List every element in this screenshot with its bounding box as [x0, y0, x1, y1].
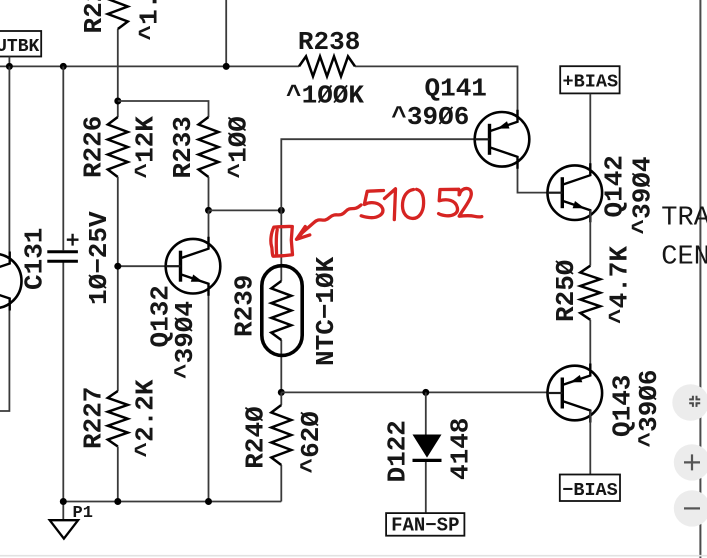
svg-text:^39Ø4: ^39Ø4 [170, 301, 200, 379]
resistor R233 [199, 117, 219, 177]
wire Q142 emitter to R250 [589, 210, 591, 266]
UI fit-view button [672, 384, 707, 421]
svg-text:R227: R227 [79, 387, 109, 449]
value label ^2.2K [131, 379, 161, 457]
transistor Q132 [166, 237, 221, 296]
wire Q130 emitter down and out left [0, 296, 9, 411]
label C131 [19, 228, 49, 290]
wire +BIAS to Q142 collector [589, 94, 591, 172]
svg-text:−BIAS: −BIAS [562, 480, 618, 501]
UI zoom-out button [674, 490, 707, 526]
label R238 [298, 27, 360, 57]
label R225 [79, 0, 109, 34]
svg-text:TRA: TRA [661, 204, 707, 234]
value label 4148 [446, 418, 476, 480]
svg-text:P1: P1 [73, 504, 93, 523]
resistor R226 [108, 117, 128, 177]
svg-text:1Ø−25V: 1Ø−25V [84, 211, 114, 305]
svg-text:OUTBK: OUTBK [0, 37, 39, 57]
node junction dot lower mid net [278, 389, 285, 396]
svg-text:^1ØØ: ^1ØØ [224, 116, 254, 178]
resistor R225 (cut at top edge) [108, 0, 128, 29]
diode D122 [413, 435, 442, 461]
power label box +BIAS [560, 66, 619, 93]
transistor Q130 [0, 252, 22, 311]
thermistor R239 capsule outline [262, 266, 302, 356]
wire Q143 collector to -BIAS [589, 411, 591, 475]
wire C131 branch vertical upper [62, 66, 64, 250]
wire R250 bottom to Q143 emitter [589, 320, 591, 372]
node junction dot ground rail x63 [60, 498, 67, 505]
red annotation box around node (marker) [271, 226, 293, 256]
resistor R238 [299, 56, 355, 76]
capacitor C131 [47, 234, 78, 261]
svg-text:R239: R239 [230, 275, 260, 337]
value label ^100K [286, 81, 364, 111]
resistor R240 [271, 405, 291, 465]
wire right edge vertical (off-page bus) [699, 0, 701, 558]
svg-text:R233: R233 [168, 116, 198, 178]
wire left vertical from rail down to Q130 [8, 66, 10, 258]
red annotation arrow [297, 205, 362, 239]
wire D122 cathode to FAN-SP [425, 462, 427, 513]
node junction dot ground rail x208 [205, 498, 212, 505]
UI bottom hairline [0, 555, 707, 557]
svg-text:C131: C131 [19, 228, 49, 290]
resistor R250 [580, 266, 600, 320]
wire Q141 collector down to Q142 base [518, 160, 549, 193]
wire R225 bottom to node [117, 29, 119, 117]
text CENTER (cut) [661, 242, 707, 272]
wire Q132 emitter down to ground rail [208, 290, 210, 502]
label Q143 [608, 375, 638, 437]
value label ^100 [224, 116, 254, 178]
svg-text:FAN−SP: FAN−SP [391, 515, 459, 537]
UI zoom-in button [674, 444, 707, 480]
svg-text:R25Ø: R25Ø [551, 260, 581, 322]
power label box -BIAS [560, 475, 620, 502]
svg-text:D122: D122 [383, 420, 413, 482]
value label ^3904 (Q142) [627, 156, 657, 234]
label Q141 [425, 74, 487, 104]
wire link between collector node and NTC node [209, 209, 282, 211]
svg-text:^39Ø4: ^39Ø4 [627, 156, 657, 234]
svg-text:^1.5K: ^1.5K [134, 0, 164, 41]
value label 10-25V [84, 211, 114, 305]
label Q132 [145, 285, 175, 347]
transistor Q142 [548, 163, 603, 222]
label D122 [383, 420, 413, 482]
svg-text:^39Ø6: ^39Ø6 [634, 369, 664, 447]
node junction dot on rail at x226 [223, 63, 230, 70]
svg-text:^62Ø: ^62Ø [296, 411, 326, 473]
wire NTC node down through thermistor to lower node [280, 210, 282, 392]
node junction dot at x9 on rail [6, 63, 13, 70]
node junction dot NTC top net [278, 207, 285, 214]
svg-text:^2.2K: ^2.2K [131, 379, 161, 457]
svg-text:R226: R226 [79, 116, 109, 178]
node junction dot D122 anode net [422, 389, 429, 396]
node junction dot R226/R233 top [114, 98, 121, 105]
transistor Q141 [475, 110, 530, 169]
node junction dot ground rail x117 [114, 498, 121, 505]
wire R233 bottom to collector node [208, 177, 210, 210]
wire vertical drop from top edge to rail [225, 0, 227, 66]
value label ^3904 [170, 301, 200, 379]
label R239 [230, 275, 260, 337]
value label ^3906 [391, 102, 469, 132]
wire NTC node up and right to Q141 base [281, 139, 476, 210]
wire Q132 collector vertical [208, 210, 210, 246]
value label NTC-10K [311, 256, 341, 366]
wire D122 anode [425, 392, 427, 434]
wire stub from OUTBK box to rail [8, 57, 10, 67]
svg-text:R225: R225 [79, 0, 109, 34]
value label ^12K [131, 116, 161, 179]
resistor R227 [108, 391, 128, 447]
label R226 [79, 116, 109, 178]
wire main top horizontal rail [0, 66, 518, 139]
wire R227 bottom to ground rail [117, 447, 119, 502]
svg-text:R24Ø: R24Ø [241, 406, 271, 468]
value label ^1.5K (cut at top edge) [134, 0, 164, 41]
label R250 [551, 260, 581, 322]
svg-text:^1ØØK: ^1ØØK [286, 81, 364, 111]
svg-text:R238: R238 [298, 27, 360, 57]
red annotation text 510 [361, 189, 423, 220]
value label ^4.7K [605, 246, 635, 324]
wire lower mid horizontal to Q143 base [281, 391, 548, 393]
svg-text:4148: 4148 [446, 418, 476, 480]
svg-text:Q142: Q142 [600, 155, 630, 217]
wire C131 branch vertical lower down to ground rail [62, 263, 64, 521]
wire R240 bottom to ground rail corner [280, 465, 282, 502]
net label box FAN-SP [386, 513, 464, 536]
label R227 [79, 387, 109, 449]
svg-text:CEN: CEN [661, 242, 707, 272]
wire branch to R233 top [118, 101, 209, 117]
label R233 [168, 116, 198, 178]
red annotation text 52 [439, 188, 482, 216]
label R240 [241, 406, 271, 468]
wire R226 bottom down through Q132 base node to R227 [117, 177, 119, 391]
thermistor R239 zigzag [271, 281, 291, 340]
node junction dot Q132 base [114, 263, 121, 270]
node junction dot Q132 collector [205, 207, 212, 214]
svg-text:^4.7K: ^4.7K [605, 246, 635, 324]
wire ground rail horizontal [63, 501, 281, 503]
svg-text:Q141: Q141 [425, 74, 487, 104]
value label ^3906 (Q143) [634, 369, 664, 447]
svg-text:+BIAS: +BIAS [563, 72, 619, 93]
node junction dot at x63 on rail [60, 63, 67, 70]
svg-text:^39Ø6: ^39Ø6 [391, 102, 469, 132]
svg-text:NTC−1ØK: NTC−1ØK [311, 256, 341, 366]
text TRANSFORMER (cut) [661, 204, 707, 234]
net label box OUTBK [0, 31, 41, 57]
value label ^620 [296, 411, 326, 473]
svg-text:^12K: ^12K [131, 116, 161, 179]
wire Q132 base from R226 line [118, 265, 168, 267]
label Q142 [600, 155, 630, 217]
ground symbol P1 [50, 504, 93, 539]
wire R240 top stub [280, 392, 282, 405]
transistor Q143 [548, 364, 603, 423]
